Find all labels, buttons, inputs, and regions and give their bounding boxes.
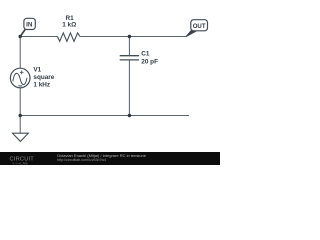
node tag OUT box: [191, 20, 208, 31]
svg-text:1 kΩ: 1 kΩ: [62, 21, 76, 28]
wire capacitor bottom lead: [128, 60, 130, 116]
svg-text:Octavian Enachi (Mitjai) / Int: Octavian Enachi (Mitjai) / Integrare RC …: [57, 153, 147, 158]
junction dot capacitor bottom: [128, 114, 131, 117]
svg-text:V1: V1: [33, 66, 41, 73]
junction dot node IN: [19, 35, 22, 38]
resistor R1: [57, 33, 80, 41]
svg-text:OUT: OUT: [193, 23, 206, 30]
junction dot capacitor top: [128, 35, 131, 38]
capacitor C1 plates: [120, 56, 139, 60]
voltage source V1 minus sign: [18, 85, 22, 87]
wire top rail left: [20, 36, 57, 38]
svg-text:C1: C1: [141, 51, 150, 58]
node tag IN pointer: [20, 29, 25, 36]
wire top rail right: [80, 36, 186, 38]
wire capacitor top lead: [128, 37, 130, 56]
node tag IN box: [24, 18, 35, 29]
wire V1 bottom to ground: [19, 88, 21, 133]
svg-text:20 pF: 20 pF: [141, 58, 158, 65]
wire bottom rail: [20, 115, 189, 117]
svg-text:IN: IN: [26, 22, 33, 29]
svg-text:http://circuitlab.com/c/v53b7w: http://circuitlab.com/c/v53b7w4: [57, 158, 106, 162]
ground symbol: [13, 133, 29, 141]
voltage source V1 circle: [10, 68, 30, 88]
node tag OUT pointer: [186, 30, 197, 37]
svg-text:∿∿▪LAB: ∿∿▪LAB: [12, 161, 28, 165]
voltage source V1 plus sign: [20, 71, 24, 75]
svg-text:square: square: [33, 74, 54, 81]
footer bar: [0, 152, 220, 165]
junction dot bottom left: [19, 114, 22, 117]
wire left vertical (node IN to V1 top): [19, 37, 21, 69]
voltage source V1 sine waveform: [13, 73, 27, 84]
svg-text:1 kHz: 1 kHz: [33, 82, 50, 89]
